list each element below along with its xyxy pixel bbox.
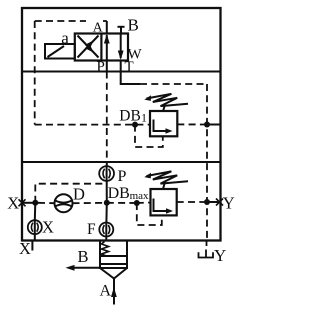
svg-text:X: X [7,193,19,212]
svg-text:max: max [130,190,149,202]
svg-text:X: X [19,239,31,258]
svg-text:D: D [73,185,85,204]
svg-text:F: F [87,221,96,238]
svg-text:P: P [97,59,105,75]
svg-text:Y: Y [214,246,226,265]
svg-text:DB: DB [119,107,141,124]
svg-text:X: X [42,218,54,237]
svg-text:1: 1 [141,111,147,125]
svg-text:B: B [128,16,139,35]
svg-text:A: A [93,20,104,35]
svg-text:P: P [118,168,127,185]
svg-text:Y: Y [223,193,235,212]
svg-text:A: A [100,283,112,300]
svg-text:DB: DB [108,185,130,202]
svg-text:B: B [78,247,89,266]
svg-text:a: a [61,29,69,48]
svg-text:T: T [125,59,134,75]
